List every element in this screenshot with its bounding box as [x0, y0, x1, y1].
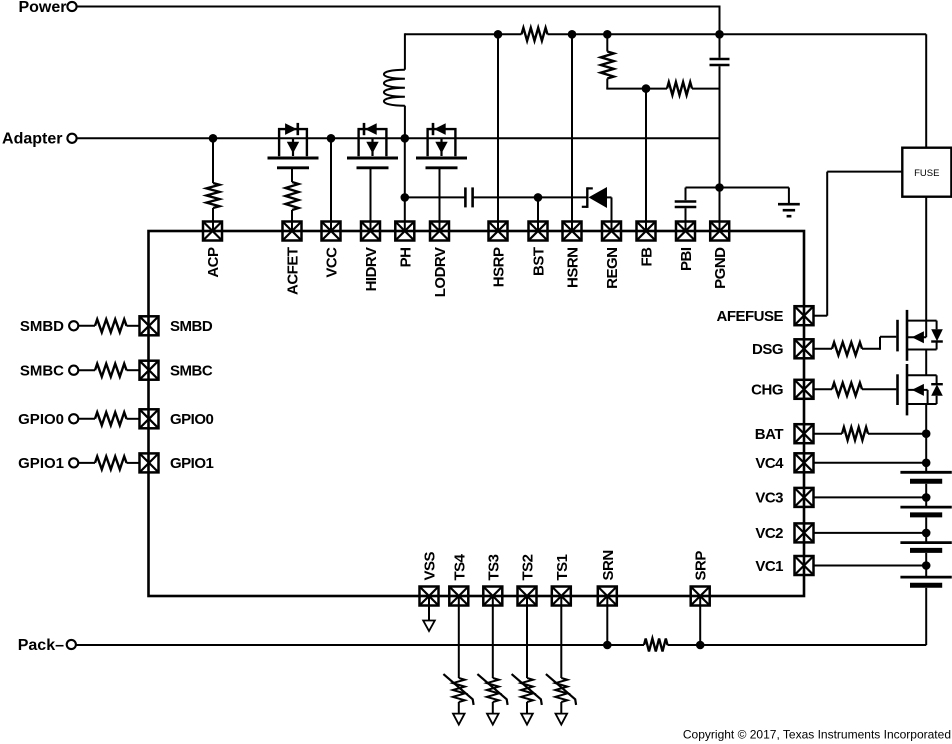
wire SMBC in [78, 369, 95, 371]
label pin PBI [678, 247, 695, 271]
wire TH3 tail [492, 702, 494, 714]
label pin HSRN [565, 248, 582, 289]
svg-text:PH: PH [397, 248, 414, 268]
resistor divider bottom [667, 82, 692, 95]
wire HSRN stub [571, 34, 573, 231]
transistor Q2 (HIDRV P-FET) [347, 123, 398, 168]
wire Q5 source to BAT node [925, 404, 927, 434]
label pin LODRV [432, 247, 449, 297]
wire input rail upper [719, 34, 721, 57]
junction HSRN node [568, 30, 577, 39]
wire HSRP stub [497, 34, 499, 231]
label pin GPIO0 internal [170, 411, 214, 428]
label pin HIDRV [363, 247, 380, 291]
resistor sense RSRP (SRN-SRP) [644, 639, 668, 652]
svg-text:SMBC: SMBC [20, 363, 64, 380]
terminal GPIO0 [69, 414, 78, 423]
svg-text:FB: FB [639, 247, 656, 267]
svg-text:HSRP: HSRP [491, 247, 508, 287]
transistor Q4 DSG (N-FET) [898, 310, 943, 361]
wire PH to bootstrap cap [405, 196, 466, 198]
svg-text:Adapter: Adapter [2, 131, 62, 148]
pin LODRV [430, 222, 449, 241]
wire TH2 stub [526, 596, 528, 678]
label net SMBD external [20, 318, 64, 335]
junction BST node [534, 193, 543, 202]
svg-text:SMBC: SMBC [170, 363, 213, 380]
svg-text:REGN: REGN [604, 248, 621, 289]
svg-text:TS1: TS1 [554, 554, 571, 580]
wire FB net [606, 88, 720, 90]
pin CHG (right) [795, 380, 814, 399]
junction VC3 node [922, 493, 931, 502]
junction SRP node [696, 641, 705, 650]
wire inductor output net [405, 33, 926, 35]
pin VC4 (right) [795, 453, 814, 472]
pin VC1 (right) [795, 556, 814, 575]
capacitor bootstrap C2 [465, 187, 472, 207]
pin HIDRV [361, 222, 380, 241]
label pin PGND [712, 247, 729, 289]
wire Power rail [77, 6, 720, 58]
wire fuse left to AFEFUSE [814, 172, 903, 316]
svg-text:VSS: VSS [422, 551, 439, 580]
battery cell B4 [900, 577, 951, 585]
label net SMBC external [20, 363, 64, 380]
label pin SMBD internal [170, 318, 213, 335]
wire ACP to pin [212, 208, 214, 231]
label pin VC4 [755, 455, 784, 472]
resistor GPIO0 series [95, 412, 127, 425]
resistor sense RSR (HSRP-HSRN) [522, 28, 548, 41]
svg-text:ACP: ACP [205, 247, 222, 278]
label pin SMBC internal [170, 363, 213, 380]
pin FB [637, 222, 656, 241]
wire battery rail seg1 [925, 434, 927, 473]
label pin VC1 [755, 558, 783, 575]
pin ACP [203, 222, 222, 241]
wire SMBD to pin [127, 325, 140, 327]
label net GPIO0 external [18, 411, 64, 428]
pin BAT (right) [795, 424, 814, 443]
arrow TH1 (open) [556, 714, 568, 725]
pin PGND [710, 222, 729, 241]
pin SRP [691, 587, 710, 606]
pin HSRN [563, 222, 582, 241]
label pin SRP [693, 551, 710, 581]
svg-text:BST: BST [531, 247, 548, 276]
label pin HSRP [491, 247, 508, 287]
pin TS4 [449, 587, 468, 606]
battery cell B1 [900, 472, 951, 481]
wire TH3 stub [492, 596, 494, 678]
wire Pack- rail [76, 644, 926, 646]
pin AFEFUSE (right) [795, 306, 814, 325]
resistor ACFET gate R2 [286, 182, 299, 210]
label copyright [683, 728, 951, 742]
svg-text:ACFET: ACFET [285, 247, 302, 295]
pin VCC [322, 222, 341, 241]
junction FB node [642, 84, 651, 93]
terminal SMBC [69, 366, 78, 375]
label pin VCC [324, 247, 341, 278]
svg-text:TS4: TS4 [451, 553, 468, 580]
wire Q4 source to Q5 drain [925, 350, 927, 376]
wire R5 to battery rail [868, 433, 926, 435]
thermistor TH1 [546, 674, 576, 705]
resistor SMBC series [95, 364, 127, 377]
pin HSRP [489, 222, 508, 241]
wire TH4 stub [458, 596, 460, 678]
wire TH1 stub [560, 596, 562, 678]
capacitor PBI C3 [675, 202, 697, 208]
label pin CHG [751, 382, 783, 399]
svg-text:VC3: VC3 [755, 490, 783, 507]
label pin ACFET [285, 247, 302, 295]
label pin BST [531, 247, 548, 276]
wire R4 to Q5 gate [862, 388, 896, 390]
arrow VSS (open) [423, 621, 435, 632]
svg-text:VCC: VCC [324, 247, 341, 278]
pin ACFET [283, 222, 302, 241]
terminal Pack- [67, 640, 76, 649]
pin GPIO0 (left) [140, 409, 159, 428]
resistor divider top (REGN net) [601, 34, 614, 88]
label pin TS2 [520, 554, 537, 580]
svg-text:PGND: PGND [712, 247, 729, 289]
svg-text:SMBD: SMBD [20, 318, 64, 335]
label net Adapter [2, 131, 62, 148]
pin TS3 [483, 587, 502, 606]
junction VCC node [327, 134, 336, 143]
junction REGN divider node [603, 30, 612, 39]
resistor BAT R5 [842, 427, 868, 440]
label pin VSS [422, 551, 439, 580]
terminal Power [67, 2, 76, 11]
pin GPIO1 (left) [140, 453, 159, 472]
wire VC3 branch [814, 496, 927, 498]
label pin REGN [604, 248, 621, 289]
junction SRN node [603, 641, 612, 650]
label net GPIO1 external [18, 455, 64, 472]
wire Q1 gate [291, 169, 293, 182]
wire SMBD in [78, 325, 95, 327]
pin VSS [420, 587, 439, 606]
label pin ACP [205, 247, 222, 278]
label pin SRN [600, 550, 617, 580]
pin SRN [598, 587, 617, 606]
svg-text:DSG: DSG [752, 341, 783, 358]
wire Q3 gate to LODRV pin [439, 169, 441, 231]
wire battery rail seg2 [925, 484, 927, 507]
junction VC4 node [922, 459, 931, 468]
wire battery rail seg3 [925, 517, 927, 542]
label pin DSG [752, 341, 783, 358]
diode D1 bootstrap (Schottky) [582, 187, 612, 208]
resistor GPIO1 series [95, 456, 127, 469]
thermistor TH2 [512, 674, 542, 705]
label pin FB [639, 247, 656, 267]
pin DSG (right) [795, 339, 814, 358]
wire SRP stub [699, 596, 701, 645]
wire diode anode to REGN pin [611, 197, 613, 231]
junction VC2 node [922, 529, 931, 538]
pin TS1 [552, 587, 571, 606]
junction PH-cap node [401, 193, 410, 202]
wire battery rail seg4 [925, 553, 927, 577]
battery cell B2 [900, 507, 951, 515]
svg-text:TS2: TS2 [520, 554, 537, 580]
svg-text:SMBD: SMBD [170, 318, 213, 335]
svg-text:LODRV: LODRV [432, 247, 449, 297]
wire ACP branch [212, 138, 214, 183]
terminal GPIO1 [69, 458, 78, 467]
label net Power [18, 0, 66, 16]
wire TH1 tail [560, 702, 562, 714]
svg-text:GPIO0: GPIO0 [18, 411, 64, 428]
wire CHG branch [814, 388, 832, 390]
junction PGND node [715, 183, 724, 192]
wire VC1 branch [814, 565, 927, 567]
svg-text:VC1: VC1 [755, 558, 783, 575]
svg-text:Copyright © 2017, Texas Instru: Copyright © 2017, Texas Instruments Inco… [683, 728, 951, 742]
wire BST to diode [538, 196, 588, 198]
wire GPIO1 to pin [127, 462, 140, 464]
pin BST [529, 222, 548, 241]
wire GPIO0 in [78, 418, 95, 420]
svg-text:HSRN: HSRN [565, 248, 582, 289]
svg-text:Power: Power [18, 0, 66, 16]
svg-text:TS3: TS3 [485, 554, 502, 580]
resistor CHG gate R4 [832, 383, 862, 396]
wire SRN stub [606, 596, 608, 645]
wire battery negative to Pack- [700, 588, 926, 645]
wire inductor top [404, 33, 406, 69]
junction BAT node [922, 429, 931, 438]
label pin PH [397, 248, 414, 268]
pin VC2 (right) [795, 523, 814, 542]
wire FB stub [645, 89, 647, 231]
op-amp U1 (battery charger IC outline) [149, 231, 805, 596]
wire R2 to ACFET pin [291, 210, 293, 231]
wire Q2 gate to HIDRV pin [370, 169, 372, 231]
svg-text:VC4: VC4 [755, 455, 784, 472]
wire DSG branch [814, 348, 832, 350]
svg-text:FUSE: FUSE [914, 168, 939, 179]
battery cell B3 [900, 543, 951, 551]
label pin VC2 [755, 525, 783, 542]
svg-text:SRN: SRN [600, 550, 617, 580]
wire PBI branch [686, 188, 720, 201]
svg-text:VC2: VC2 [755, 525, 783, 542]
svg-text:AFEFUSE: AFEFUSE [716, 308, 783, 325]
thermistor TH3 [477, 674, 507, 705]
resistor ACP R1 [207, 183, 220, 208]
label pin TS3 [485, 554, 502, 580]
wire TH2 tail [526, 702, 528, 714]
pin PH [395, 222, 414, 241]
wire to ground [720, 188, 789, 204]
pin SMBD (left) [140, 316, 159, 335]
svg-text:SRP: SRP [693, 551, 710, 581]
label pin BAT [755, 426, 784, 443]
wire input rail lower [719, 66, 721, 231]
junction input rail top [715, 30, 724, 39]
wire PH stub [404, 138, 406, 231]
wire TH4 tail [458, 702, 460, 714]
wire bootstrap cap to BST [473, 196, 538, 198]
ground symbol [778, 204, 800, 216]
pin TS2 [518, 587, 537, 606]
label net Pack- [18, 637, 64, 654]
wire PBI cap to pin [685, 208, 687, 231]
wire VC4 branch [814, 462, 927, 464]
svg-text:HIDRV: HIDRV [363, 247, 380, 291]
svg-text:Pack–: Pack– [18, 637, 64, 654]
arrow TH4 (open) [453, 714, 465, 725]
junction PH node [401, 134, 410, 143]
junction HSRP node [494, 30, 503, 39]
wire VSS stub [428, 596, 430, 621]
svg-text:GPIO1: GPIO1 [170, 455, 214, 472]
resistor DSG gate R3 [832, 342, 862, 355]
wire BST stub [537, 197, 539, 231]
fuse F1 [902, 148, 951, 197]
wire VCC stub [330, 138, 332, 231]
inductor L1 [384, 70, 405, 106]
resistor SMBD series [95, 319, 127, 332]
wire BAT branch [814, 433, 842, 435]
svg-text:BAT: BAT [755, 426, 784, 443]
wire GPIO1 in [78, 462, 95, 464]
label pin AFEFUSE [716, 308, 783, 325]
label pin TS1 [554, 554, 571, 580]
thermistor TH4 [443, 674, 473, 705]
wire fuse bottom to Q4 [925, 197, 927, 338]
pin VC3 (right) [795, 488, 814, 507]
arrow TH2 (open) [521, 714, 533, 725]
wire VC2 branch [814, 532, 927, 534]
svg-text:PBI: PBI [678, 247, 695, 271]
terminal Adapter [67, 134, 76, 143]
transistor Q5 CHG (N-FET) [898, 364, 943, 415]
label pin TS4 [451, 553, 468, 580]
arrow TH3 (open) [487, 714, 499, 725]
svg-text:GPIO0: GPIO0 [170, 411, 214, 428]
label pin VC3 [755, 490, 783, 507]
pin SMBC (left) [140, 361, 159, 380]
label pin GPIO1 internal [170, 455, 214, 472]
wire Adapter rail [77, 137, 720, 139]
svg-text:CHG: CHG [751, 382, 783, 399]
junction VC1 node [922, 561, 931, 570]
terminal SMBD [69, 321, 78, 330]
wire GPIO0 to pin [127, 418, 140, 420]
capacitor input C1 [710, 59, 730, 65]
wire R3 to Q4 gate [862, 337, 896, 350]
wire inductor to PH [404, 106, 406, 139]
pin PBI [676, 222, 695, 241]
wire fuse top feed [925, 34, 927, 147]
transistor Q1 ACFET (P-FET) [268, 123, 319, 168]
junction ACP node [209, 134, 218, 143]
svg-text:GPIO1: GPIO1 [18, 455, 64, 472]
transistor Q3 (LODRV P-FET) [416, 123, 467, 168]
wire SMBC to pin [127, 369, 140, 371]
pin REGN [602, 222, 621, 241]
